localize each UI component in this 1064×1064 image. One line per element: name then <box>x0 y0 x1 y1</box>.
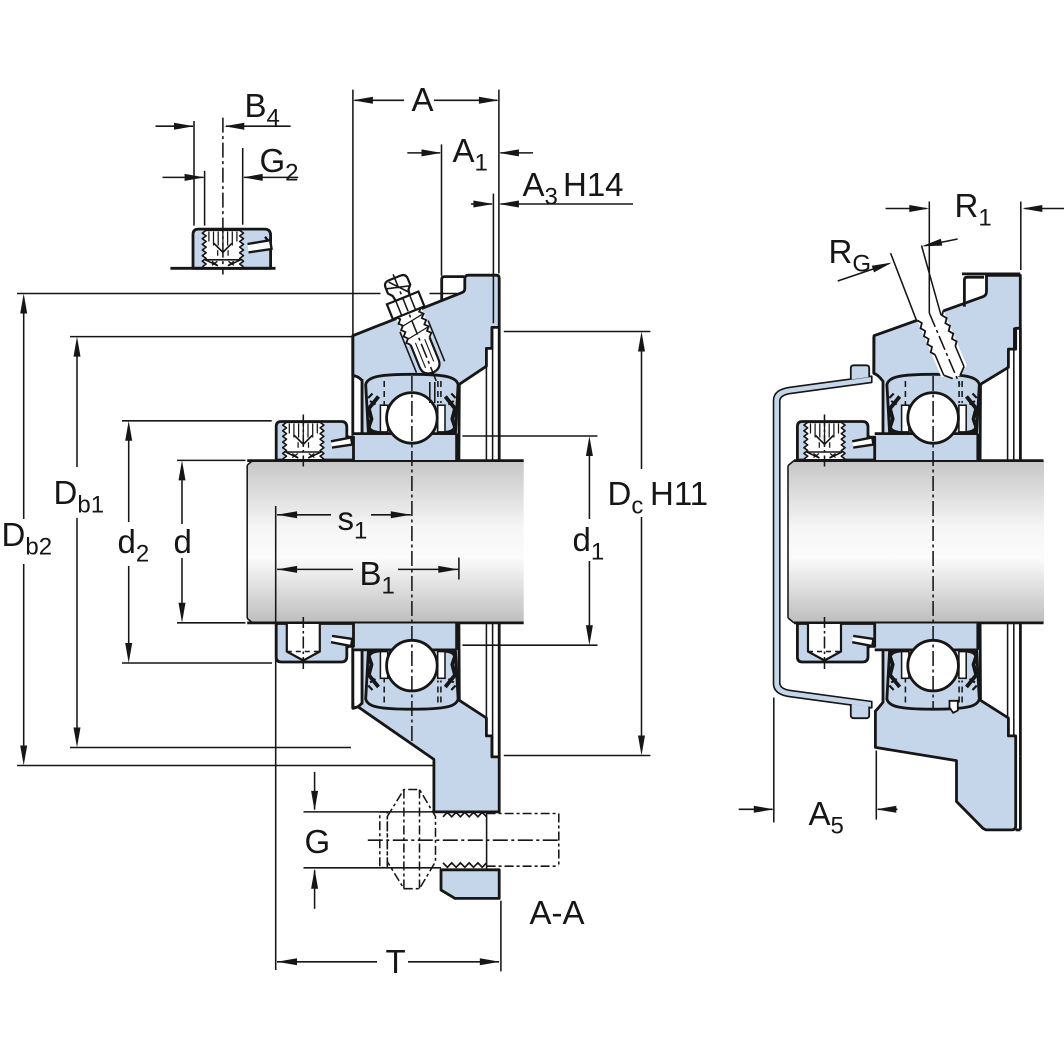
pressed steel end cover (right view) <box>774 376 872 708</box>
hex nut (phantom) <box>387 790 435 889</box>
flange slot / spigot silhouette lines (main view) <box>485 366 487 460</box>
seal right <box>444 651 455 688</box>
flange silhouette top edge (right view) <box>962 272 1020 275</box>
collar body <box>276 624 353 663</box>
bearing ball <box>387 393 438 444</box>
bearing ball <box>387 640 438 691</box>
dim A3 H14 <box>492 194 494 324</box>
seal flinger edge on collar <box>331 438 352 448</box>
flange silhouette groove (main view top) <box>442 277 464 301</box>
dim s1 <box>275 506 277 970</box>
detail flinger edge <box>248 240 273 253</box>
housing upper half (right view) <box>874 275 1021 460</box>
inner ring shoulders <box>902 652 909 679</box>
dim T <box>500 901 502 972</box>
dim d1 <box>462 435 597 437</box>
dim d2 <box>122 420 272 422</box>
seal left <box>369 651 380 688</box>
dim G <box>304 811 444 813</box>
hidden set screw hole edges <box>383 678 385 703</box>
inner ring sleeve <box>875 434 978 460</box>
inner ring shoulders <box>380 405 387 432</box>
foot wedge below bolt hole <box>441 870 499 899</box>
seal flinger edge on collar <box>852 438 873 448</box>
grease nipple (zerk) on main view <box>379 272 449 379</box>
seal left <box>890 651 901 688</box>
inner ring shoulders <box>902 405 909 432</box>
dim Db1 <box>70 336 352 338</box>
dim A5 <box>773 698 775 823</box>
bearing centre line (main) <box>411 376 413 741</box>
seal flinger edge on collar <box>852 636 873 646</box>
bearing centre line (right view) <box>932 376 934 708</box>
seal flinger edge on collar <box>331 636 352 646</box>
bearing outer ring <box>887 634 979 709</box>
detail base line <box>170 267 275 270</box>
dim Db2 <box>17 293 381 295</box>
set screw (second hole, unsectioned view) <box>808 624 841 661</box>
dim R1 <box>1020 202 1022 271</box>
bearing outer ring <box>366 634 458 709</box>
shaft (right view) <box>788 461 1044 623</box>
inner ring sleeve <box>354 624 457 650</box>
svg-text:T: T <box>386 943 406 980</box>
hidden set screw hole edges <box>383 381 385 406</box>
detail collar body <box>193 229 271 268</box>
housing upper half (main view, cast body + flange section) <box>353 275 499 460</box>
seal left <box>369 397 380 434</box>
svg-text:G: G <box>305 823 331 860</box>
set screw (second hole, unsectioned view) <box>287 624 320 661</box>
hidden set screw hole edges <box>904 381 906 406</box>
collar body <box>797 422 874 461</box>
grease nipple hole RG (right view) <box>916 306 970 383</box>
seal right <box>966 651 977 688</box>
dim A1 <box>441 144 443 275</box>
shaft (main view) <box>247 461 524 623</box>
dim Dc H11 <box>504 331 651 333</box>
dim G2 <box>204 171 206 226</box>
bolt hole thread in foot <box>443 812 487 817</box>
svg-text:d: d <box>174 523 192 560</box>
svg-text:A-A: A-A <box>530 894 585 931</box>
set screw (sectioned, with thread) <box>806 422 843 459</box>
svg-text:H11: H11 <box>650 475 708 512</box>
cover crimped end tabs <box>851 365 869 379</box>
bearing ball <box>908 393 959 444</box>
hidden set screw hole edges <box>904 678 906 703</box>
dim B4 <box>193 121 195 226</box>
dim d <box>177 459 246 461</box>
set screw (sectioned, with thread) <box>204 230 241 266</box>
inner ring sleeve <box>875 624 978 650</box>
bearing ball <box>908 640 959 691</box>
svg-text:H14: H14 <box>563 166 624 203</box>
dim RG <box>891 253 917 320</box>
collar body <box>276 422 353 461</box>
outer ring anti-rotation tab (right view) <box>950 701 958 713</box>
seal right <box>966 397 977 434</box>
hole axis (right view) <box>928 202 930 314</box>
seal left <box>890 397 901 434</box>
collar body <box>797 624 874 663</box>
bearing outer ring <box>887 374 979 449</box>
seal right <box>444 397 455 434</box>
bearing outer ring <box>366 374 458 449</box>
washer (phantom) <box>380 812 388 868</box>
inner ring sleeve <box>354 434 457 460</box>
groove bracket (right view top) <box>964 277 984 306</box>
set screw (sectioned, with thread) <box>285 422 322 459</box>
housing lower half + base foot (right view) <box>875 624 1015 830</box>
bolt axis <box>368 839 559 841</box>
inner ring shoulders <box>380 652 387 679</box>
detail screw axis <box>222 118 224 275</box>
silhouette columns (right view) <box>1007 366 1009 460</box>
svg-text:A: A <box>412 81 434 118</box>
housing lower half with bolt foot (main view) <box>353 624 499 812</box>
dim B1 <box>458 558 460 580</box>
stud end (phantom) <box>487 813 559 815</box>
grease duct through outer ring <box>429 382 431 403</box>
dim A <box>352 90 354 335</box>
